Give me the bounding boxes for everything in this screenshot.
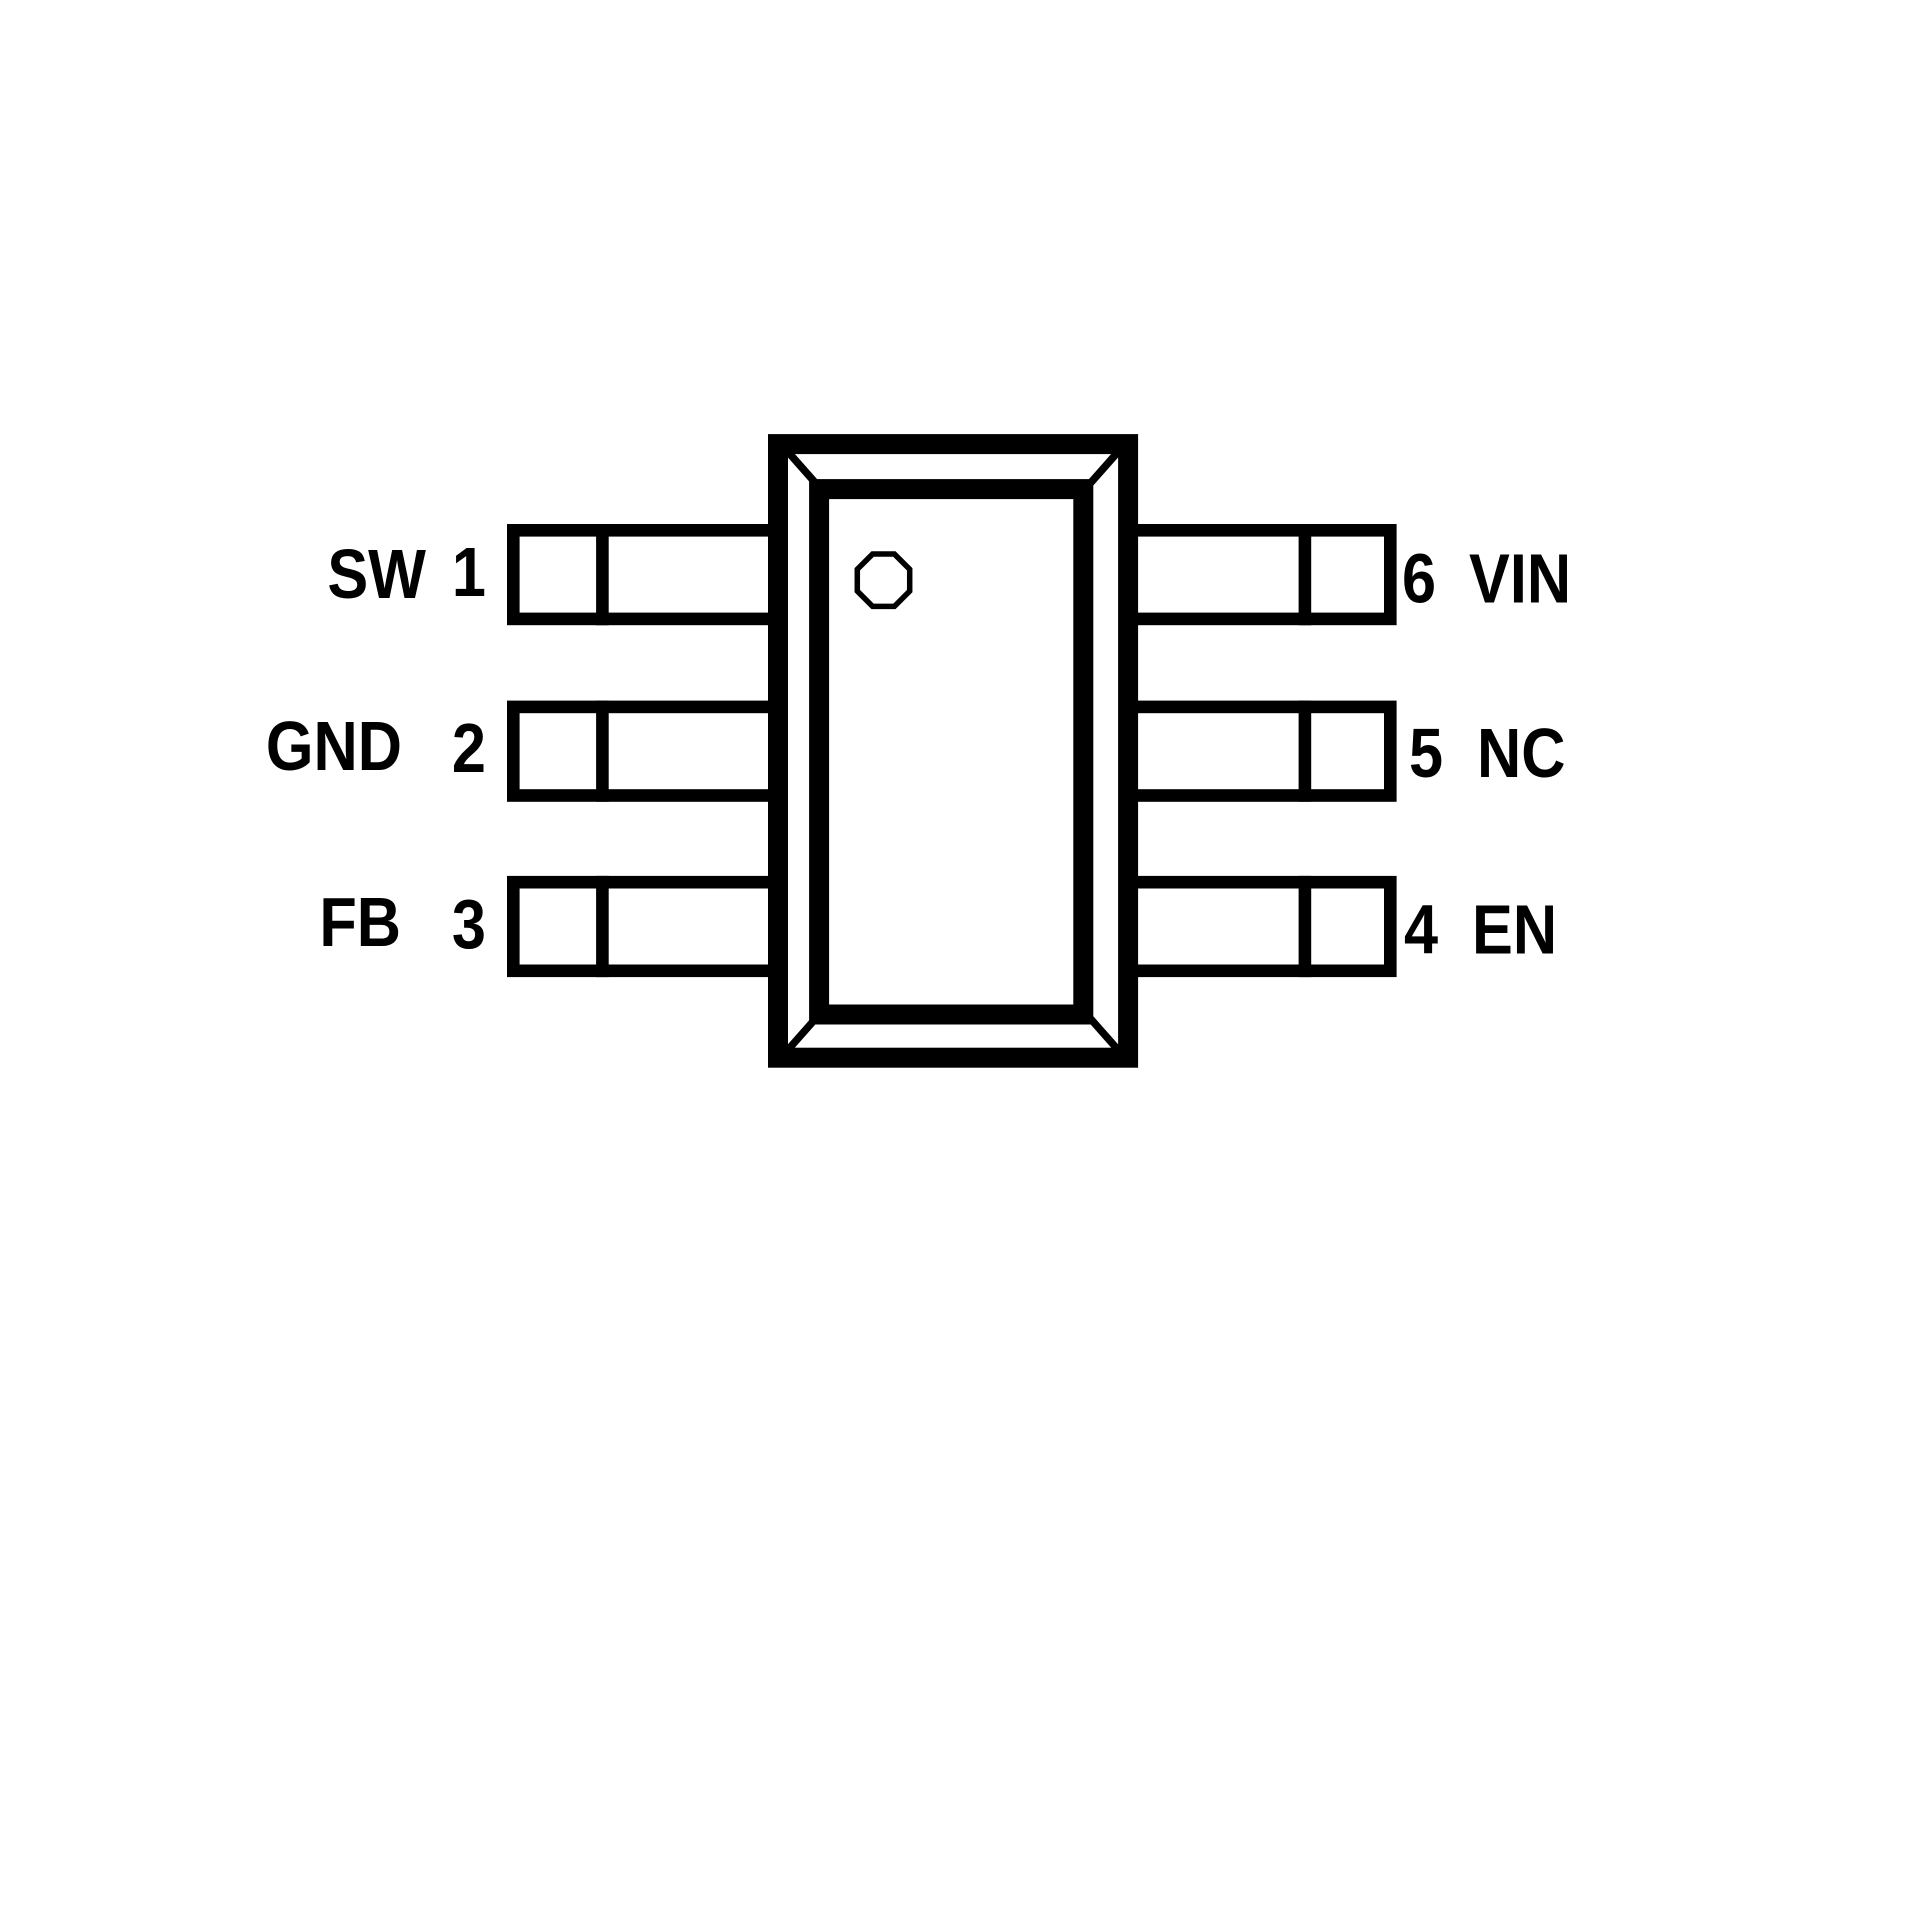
svg-text:3: 3 xyxy=(452,884,486,963)
svg-text:4: 4 xyxy=(1404,889,1438,968)
svg-text:FB: FB xyxy=(319,882,401,961)
svg-text:1: 1 xyxy=(452,532,486,611)
svg-text:VIN: VIN xyxy=(1469,539,1571,618)
svg-text:EN: EN xyxy=(1472,889,1557,968)
svg-text:SW: SW xyxy=(327,534,427,613)
svg-text:GND: GND xyxy=(266,706,402,785)
svg-text:NC: NC xyxy=(1477,713,1565,792)
svg-text:5: 5 xyxy=(1409,713,1443,792)
svg-text:6: 6 xyxy=(1402,539,1436,618)
svg-text:2: 2 xyxy=(452,708,486,787)
